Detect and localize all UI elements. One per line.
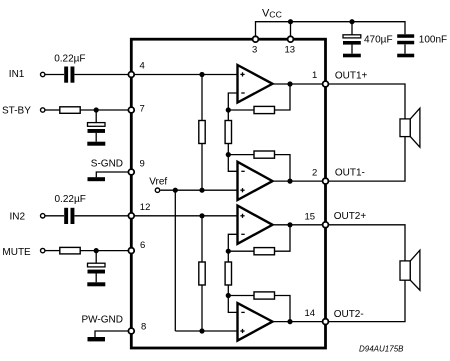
svg-text:CC: CC xyxy=(269,10,282,20)
svg-text:Vref: Vref xyxy=(149,177,167,188)
svg-text:8: 8 xyxy=(141,322,146,333)
svg-text:470µF: 470µF xyxy=(364,35,393,46)
svg-text:S-GND: S-GND xyxy=(91,159,123,170)
svg-text:IN2: IN2 xyxy=(10,211,26,222)
svg-text:15: 15 xyxy=(305,212,316,223)
svg-text:6: 6 xyxy=(140,240,145,251)
svg-text:OUT2+: OUT2+ xyxy=(334,211,367,222)
svg-text:4: 4 xyxy=(140,61,145,72)
svg-text:IN1: IN1 xyxy=(9,69,25,80)
svg-text:D94AU175B: D94AU175B xyxy=(359,344,404,353)
svg-text:7: 7 xyxy=(140,103,145,114)
svg-text:MUTE: MUTE xyxy=(2,247,31,258)
svg-text:1: 1 xyxy=(312,70,317,81)
svg-text:2: 2 xyxy=(312,167,317,178)
svg-text:ST-BY: ST-BY xyxy=(2,106,31,117)
svg-text:0.22µF: 0.22µF xyxy=(54,54,85,65)
svg-text:14: 14 xyxy=(305,308,316,319)
svg-text:PW-GND: PW-GND xyxy=(82,315,123,326)
svg-text:13: 13 xyxy=(285,45,296,56)
svg-text:9: 9 xyxy=(140,159,145,170)
svg-text:12: 12 xyxy=(140,202,151,213)
svg-text:0.22µF: 0.22µF xyxy=(55,194,86,205)
svg-text:OUT1-: OUT1- xyxy=(335,167,365,178)
svg-text:100nF: 100nF xyxy=(419,35,447,46)
svg-text:OUT2-: OUT2- xyxy=(334,309,364,320)
svg-text:3: 3 xyxy=(252,45,257,56)
svg-text:OUT1+: OUT1+ xyxy=(335,71,368,82)
